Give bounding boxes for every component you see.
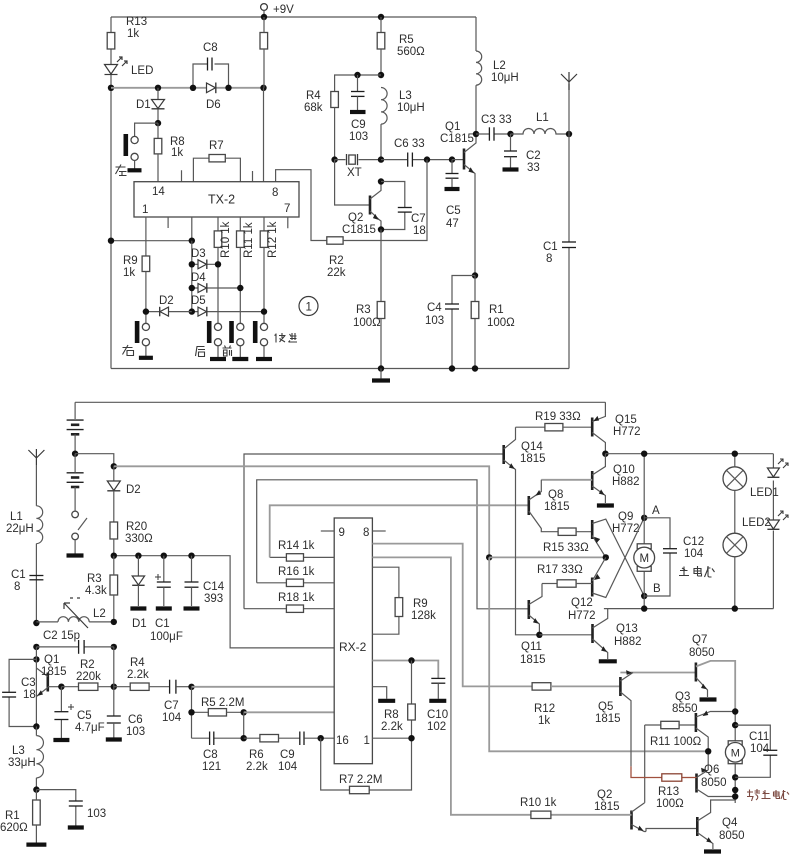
wire R12 pin wire: [372, 544, 532, 687]
transistor Q7: [695, 663, 698, 682]
ground key 左: [128, 168, 142, 172]
wire TX-2 bottom pins: [146, 217, 288, 256]
transistor Q5: [619, 677, 622, 696]
capacitor C9: [354, 72, 360, 78]
key button 左: [131, 136, 138, 143]
resistor R1 TX: [474, 276, 476, 369]
transistor Q8: [527, 496, 530, 515]
svg-text:100Ω: 100Ω: [656, 798, 684, 810]
svg-text:1: 1: [142, 204, 148, 216]
wire Q13 base: [539, 634, 592, 636]
svg-text:R7: R7: [209, 140, 224, 152]
svg-text:8050: 8050: [719, 830, 745, 842]
svg-text:1: 1: [364, 735, 370, 747]
svg-text:R2: R2: [80, 659, 95, 671]
wire bottom rail TX: [111, 368, 569, 370]
capacitor C12: [644, 518, 670, 596]
svg-text:R11 1k: R11 1k: [243, 222, 255, 258]
svg-text:4.3k: 4.3k: [85, 585, 107, 597]
svg-text:C7: C7: [411, 213, 426, 225]
svg-text:C1815: C1815: [440, 133, 474, 145]
svg-text:M: M: [640, 553, 650, 565]
transistor Q2 RX: [630, 811, 633, 830]
node Q1 emitter bottom: [33, 723, 39, 729]
circled 1: [299, 297, 318, 316]
transistor Q10: [591, 471, 594, 490]
svg-text:220k: 220k: [76, 671, 101, 683]
svg-text:R9: R9: [413, 598, 428, 610]
svg-text:103: 103: [349, 131, 368, 143]
LED indicator diode: [105, 57, 128, 75]
svg-text:Q2: Q2: [348, 212, 363, 224]
wire +9V column down to TX-2: [263, 17, 266, 182]
svg-text:LED: LED: [131, 65, 153, 77]
svg-text:18: 18: [23, 689, 36, 701]
capacitor C1 100uF: [161, 553, 167, 559]
svg-text:C1: C1: [543, 241, 558, 253]
svg-text:C5: C5: [77, 710, 92, 722]
label 左: [116, 165, 127, 176]
svg-text:C8: C8: [203, 42, 218, 54]
node C8 left: [190, 85, 196, 91]
resistor R19: [516, 426, 545, 428]
svg-text:R9: R9: [123, 255, 138, 267]
svg-text:R4: R4: [306, 90, 321, 102]
transistor Q13: [591, 624, 594, 643]
node rail to +9V column: [260, 85, 266, 91]
svg-text:C6 33: C6 33: [394, 138, 425, 150]
svg-text:100Ω: 100Ω: [487, 317, 515, 329]
diode D1 RX zener: [135, 553, 141, 559]
svg-text:H772: H772: [613, 426, 641, 438]
wire loop1 R18 to Q14 base: [244, 454, 504, 609]
wire pin9 stub: [321, 530, 334, 532]
resistor R2: [327, 237, 343, 244]
resistor R4 RX: [114, 686, 130, 688]
resistor R5: [378, 14, 384, 20]
svg-text:10μH: 10μH: [397, 102, 425, 114]
svg-text:TX-2: TX-2: [208, 193, 235, 207]
svg-text:R2: R2: [329, 255, 344, 267]
wire line2 battery to emitters: [114, 466, 489, 557]
svg-text:Q14: Q14: [521, 441, 543, 453]
svg-text:H772: H772: [568, 610, 596, 622]
transistor Q14: [502, 445, 505, 464]
label 快进: [275, 333, 298, 343]
svg-text:68k: 68k: [304, 102, 323, 114]
svg-text:R6: R6: [249, 749, 264, 761]
svg-text:8: 8: [546, 253, 552, 265]
svg-text:2.2k: 2.2k: [127, 669, 149, 681]
wire diode column: [191, 241, 193, 312]
resistor R14: [270, 556, 335, 558]
svg-text:M: M: [731, 748, 740, 760]
resistor R2 RX: [61, 686, 78, 688]
svg-text:2.2k: 2.2k: [381, 721, 403, 733]
diode D5: [192, 311, 264, 313]
wire battery junction to D2 column: [75, 454, 114, 467]
svg-text:+9V: +9V: [273, 4, 294, 16]
transistor Q4: [696, 817, 699, 836]
resistor R15: [558, 528, 576, 535]
svg-text:C11: C11: [749, 731, 769, 743]
node Q2 emitter: [378, 226, 384, 232]
lamp LED1: [723, 467, 747, 491]
svg-text:C14: C14: [203, 581, 225, 593]
svg-text:Q11: Q11: [521, 641, 542, 653]
key button 前: [237, 323, 244, 330]
capacitor C1 TX: [568, 134, 570, 369]
node emitters supply: [486, 554, 492, 560]
lamp LED2: [723, 533, 747, 557]
battery B2: [67, 473, 84, 487]
svg-text:4.7μF: 4.7μF: [75, 722, 105, 734]
svg-text:1815: 1815: [520, 453, 546, 465]
capacitor C8 121: [192, 737, 244, 739]
node C2 top: [507, 131, 513, 137]
resistor R17: [542, 583, 557, 585]
svg-text:Q7: Q7: [692, 634, 707, 646]
svg-text:Q4: Q4: [722, 817, 738, 829]
svg-text:L3: L3: [399, 90, 412, 102]
wire Q2 emitter to Q4 base: [646, 829, 697, 832]
ground C2: [503, 167, 519, 171]
svg-text:1k: 1k: [171, 147, 183, 159]
node Q11 emitter: [536, 632, 542, 638]
svg-text:Q9: Q9: [618, 511, 633, 523]
resistor R4: [331, 92, 339, 108]
capacitor C5: [451, 160, 453, 173]
svg-text:560Ω: 560Ω: [397, 46, 425, 58]
svg-text:D2: D2: [126, 484, 141, 496]
key button 快进: [260, 323, 267, 330]
wire left rail: [110, 17, 112, 369]
node +9V terminal: [261, 4, 268, 11]
transistor Q15: [591, 418, 594, 437]
svg-text:C12: C12: [683, 536, 704, 548]
node C8 right: [225, 85, 231, 91]
capacitor C10: [431, 677, 445, 679]
svg-text:D1: D1: [132, 618, 147, 630]
svg-text:R5: R5: [399, 34, 414, 46]
node R8 top: [408, 657, 414, 663]
svg-text:1815: 1815: [594, 801, 620, 813]
svg-text:R19 33Ω: R19 33Ω: [535, 411, 581, 423]
svg-text:103: 103: [126, 726, 145, 738]
resistor R18: [244, 608, 334, 610]
switch power: [72, 511, 79, 518]
svg-text:L1: L1: [536, 112, 549, 124]
capacitor C14: [188, 553, 194, 559]
wire TX-2 stub pins top: [182, 170, 253, 181]
wire pin1 horizontal: [111, 240, 192, 242]
wire loop3 R16 to Q11 base: [257, 480, 529, 609]
inductor L1 TX: [511, 129, 570, 134]
svg-text:D6: D6: [206, 99, 221, 111]
node R3 rail: [378, 365, 384, 371]
svg-text:R20: R20: [126, 521, 147, 533]
capacitor C2: [510, 134, 512, 151]
resistor R10: [214, 231, 222, 248]
capacitor C3 RX: [9, 659, 36, 726]
svg-text:L1: L1: [10, 511, 23, 523]
svg-text:14: 14: [152, 186, 165, 198]
svg-text:Q12: Q12: [571, 597, 593, 609]
svg-text:R1: R1: [5, 810, 20, 822]
svg-text:128k: 128k: [411, 610, 436, 622]
node left rail pin1 row: [108, 238, 114, 244]
wire loop4 R14 to Q8 base: [270, 505, 529, 557]
svg-text:R15 33Ω: R15 33Ω: [543, 542, 589, 554]
diode D4: [192, 287, 241, 289]
svg-text:C1: C1: [11, 569, 26, 581]
diode D3: [192, 263, 218, 265]
svg-text:XT: XT: [347, 167, 362, 179]
svg-text:R10 1k: R10 1k: [520, 797, 557, 809]
diode LED1: [767, 468, 779, 477]
svg-text:8: 8: [272, 187, 278, 199]
svg-text:R4: R4: [130, 657, 145, 669]
node Q15 collector: [602, 451, 608, 457]
wire node A to RX-2: [192, 686, 335, 688]
svg-text:620Ω: 620Ω: [0, 822, 28, 834]
transistor Q1 TX: [449, 156, 455, 162]
IC RX-2: [334, 518, 372, 764]
resistor R20: [113, 491, 115, 522]
label 转向电机: [747, 789, 789, 801]
ground C9: [350, 110, 366, 114]
motor M turn: [728, 741, 742, 746]
svg-text:C2 15p: C2 15p: [43, 630, 80, 642]
capacitor C4: [452, 276, 475, 369]
capacitor C2 15p: [33, 644, 39, 650]
label 后: [196, 347, 206, 357]
svg-text:C1815: C1815: [342, 224, 376, 236]
svg-text:C1: C1: [155, 618, 170, 630]
svg-text:1k: 1k: [538, 715, 550, 727]
capacitor C8: [193, 64, 208, 88]
svg-text:18: 18: [413, 225, 426, 237]
inductor L1 RX: [36, 506, 42, 544]
svg-text:R14 1k: R14 1k: [278, 540, 315, 552]
ground key 后: [210, 357, 226, 361]
svg-text:R8: R8: [384, 709, 399, 721]
svg-text:22k: 22k: [327, 267, 346, 279]
diode D6: [207, 83, 216, 93]
node R2 column joint: [424, 156, 430, 162]
svg-text:Q15: Q15: [615, 414, 637, 426]
node antenna column: [566, 131, 572, 137]
resistor R10 RX: [531, 811, 551, 818]
node junction +9V on rail: [261, 14, 267, 20]
wire pin ground stub: [372, 687, 386, 699]
node base row: [58, 684, 64, 690]
battery B1: [74, 402, 76, 419]
wire motor2 column: [734, 712, 736, 804]
node Q1 emitter row: [472, 272, 478, 278]
node D1 top junction: [155, 85, 161, 91]
node L2 left: [33, 620, 39, 626]
transistor Q1 RX: [33, 656, 39, 662]
svg-text:C9: C9: [280, 749, 295, 761]
svg-text:C6: C6: [128, 714, 143, 726]
svg-text:LED2: LED2: [742, 517, 771, 529]
resistor R11: [645, 724, 661, 726]
node pin16: [318, 735, 324, 741]
node L3 bottom: [378, 156, 384, 162]
svg-text:L2: L2: [93, 608, 106, 620]
inductor L2: [476, 51, 482, 85]
svg-text:Q3: Q3: [675, 691, 690, 703]
wire battery top rail: [75, 401, 605, 403]
svg-text:104: 104: [750, 743, 770, 755]
svg-text:1815: 1815: [41, 666, 67, 678]
node R2/R4 junction: [111, 684, 117, 690]
svg-text:2.2k: 2.2k: [246, 761, 268, 773]
svg-text:R17 33Ω: R17 33Ω: [537, 564, 583, 576]
ground switch: [67, 553, 84, 557]
wire R5 bottom to R4/C9: [335, 75, 381, 92]
svg-text:102: 102: [427, 721, 446, 733]
svg-text:C9: C9: [351, 119, 366, 131]
resistor R7: [193, 158, 209, 182]
svg-text:R10 1k: R10 1k: [220, 221, 232, 258]
svg-text:R7 2.2M: R7 2.2M: [339, 774, 382, 786]
key button 后: [214, 323, 221, 330]
transistor Q2: [335, 160, 370, 205]
svg-text:8: 8: [363, 527, 369, 539]
svg-text:33μH: 33μH: [8, 757, 36, 769]
wire R11 to Q2 collector: [644, 725, 646, 803]
node A: [641, 515, 647, 521]
svg-text:D4: D4: [191, 272, 206, 284]
svg-text:L2: L2: [493, 60, 506, 72]
wire TX-2 pin8 to R2: [276, 170, 327, 241]
wire supply rail RX: [114, 556, 334, 648]
svg-text:R5 2.2M: R5 2.2M: [201, 697, 244, 709]
resistor R12: [260, 231, 268, 248]
svg-text:L3: L3: [12, 745, 25, 757]
resistor R13: [107, 33, 115, 50]
capacitor C1 8 RX: [29, 575, 43, 577]
antenna TX: [568, 84, 570, 134]
wire to key left: [135, 123, 158, 136]
wire R10 pin wire: [372, 557, 531, 814]
node Q1 collector / L2: [473, 131, 479, 137]
resistor R8 RX: [411, 661, 413, 739]
svg-text:Q6: Q6: [704, 764, 719, 776]
wire pin8 stub: [372, 530, 385, 532]
svg-text:C3 33: C3 33: [481, 114, 512, 126]
svg-text:Q8: Q8: [548, 489, 563, 501]
svg-text:RX-2: RX-2: [339, 640, 367, 654]
svg-text:100Ω: 100Ω: [353, 317, 381, 329]
svg-text:C8: C8: [203, 749, 218, 761]
svg-text:9: 9: [339, 527, 345, 539]
ground C5: [445, 187, 460, 191]
svg-text:R1: R1: [489, 304, 504, 316]
svg-text:104: 104: [162, 712, 182, 724]
transistor Q12: [591, 578, 594, 597]
svg-text:C3: C3: [21, 677, 36, 689]
wire pin C10 row: [372, 661, 438, 679]
svg-text:104: 104: [278, 761, 298, 773]
ground main TX: [372, 378, 390, 382]
capacitor C6: [381, 159, 452, 161]
svg-text:H772: H772: [612, 523, 640, 535]
svg-text:R12 1k: R12 1k: [267, 221, 279, 258]
svg-text:100μF: 100μF: [150, 631, 183, 643]
label 主电机: [679, 566, 715, 577]
svg-text:R13: R13: [658, 786, 679, 798]
antenna RX: [28, 449, 44, 465]
resistor R5 2.2M: [192, 687, 209, 738]
svg-text:H882: H882: [614, 636, 642, 648]
node A signal junction: [188, 684, 194, 690]
wire pin1 row: [372, 737, 411, 739]
svg-text:D2: D2: [159, 295, 174, 307]
label 前: [223, 346, 232, 357]
inductor L2 RX variable: [58, 617, 89, 622]
transistor Q9: [591, 520, 594, 539]
diode D2 RX: [111, 463, 117, 469]
node emitters junction: [603, 554, 609, 560]
svg-text:103: 103: [87, 808, 106, 820]
ground key 右: [139, 356, 153, 360]
svg-text:1815: 1815: [520, 654, 546, 666]
svg-text:8050: 8050: [701, 777, 727, 789]
motor M main: [637, 544, 651, 549]
resistor R13 RX red: [631, 766, 697, 777]
wire top rail: [111, 16, 476, 18]
svg-text:B: B: [653, 583, 661, 595]
svg-text:1k: 1k: [123, 267, 135, 279]
inductor L3: [381, 88, 387, 125]
ground key 快进: [256, 357, 272, 361]
resistor R9 128k: [372, 567, 399, 634]
svg-text:C10: C10: [427, 709, 448, 721]
svg-text:R3: R3: [356, 304, 371, 316]
svg-text:R11 100Ω: R11 100Ω: [650, 736, 702, 748]
resistor R7 2.2M: [321, 738, 412, 790]
diode D2: [146, 311, 192, 313]
label 右: [123, 345, 134, 356]
transistor Q3: [695, 713, 698, 732]
svg-text:A: A: [652, 505, 660, 517]
svg-text:LED1: LED1: [750, 487, 779, 499]
node battery junction: [72, 451, 78, 457]
capacitor C11: [735, 725, 770, 777]
svg-text:Q13: Q13: [616, 623, 638, 635]
svg-text:R18 1k: R18 1k: [278, 592, 315, 604]
svg-text:R16 1k: R16 1k: [278, 566, 315, 578]
svg-text:8: 8: [14, 581, 20, 593]
svg-text:D5: D5: [191, 295, 206, 307]
svg-text:7: 7: [284, 203, 290, 215]
svg-text:103: 103: [425, 315, 444, 327]
svg-text:1k: 1k: [127, 28, 139, 40]
resistor R6: [244, 737, 260, 739]
node LED rail junction: [108, 85, 114, 91]
svg-text:121: 121: [202, 761, 221, 773]
capacitor C3: [476, 133, 511, 135]
svg-text:R3: R3: [87, 573, 102, 585]
svg-text:330Ω: 330Ω: [125, 533, 153, 545]
svg-text:C7: C7: [164, 700, 179, 712]
node R5 bottom: [378, 72, 384, 78]
diode D1: [157, 88, 159, 123]
node R1 top: [33, 786, 39, 792]
